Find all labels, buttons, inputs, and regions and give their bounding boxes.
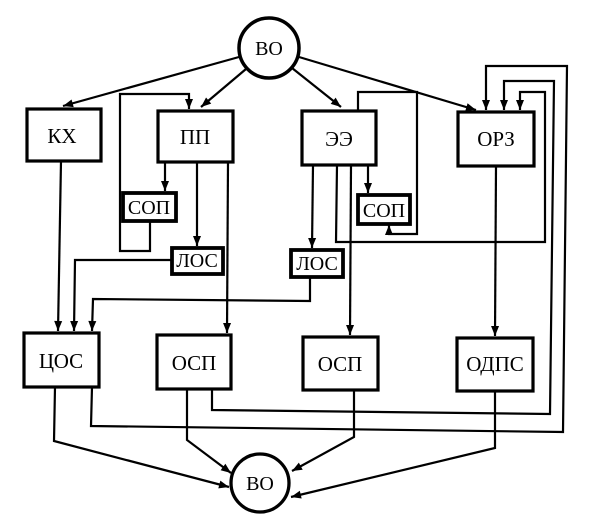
svg-text:ЛОС: ЛОС: [296, 253, 338, 275]
block LOS left: [172, 248, 223, 274]
block ORZ: [458, 112, 534, 166]
wire VO to EE: [292, 68, 341, 107]
wire VO to PP: [201, 69, 246, 107]
svg-text:ОСП: ОСП: [318, 352, 363, 376]
svg-text:СОП: СОП: [128, 197, 170, 219]
wire EE top loop to SOP right: [358, 92, 417, 234]
wire OSP left to VO bottom: [187, 389, 231, 473]
svg-text:СОП: СОП: [363, 200, 405, 222]
block KX: [27, 109, 101, 161]
block SOP right: [358, 195, 410, 224]
wire LOS left to TsOS: [74, 260, 172, 331]
wire OSP right to VO bottom: [292, 390, 354, 471]
block PP: [158, 111, 233, 162]
svg-text:ЭЭ: ЭЭ: [325, 127, 353, 151]
svg-text:ПП: ПП: [180, 125, 210, 149]
wire PP to LOS left: [196, 162, 198, 246]
block OSP right: [303, 337, 378, 390]
wire VO to KX: [63, 57, 239, 106]
block ODPS: [457, 338, 533, 391]
wire ODPS to VO bottom: [291, 391, 495, 497]
wire TsOS loop to ORZ: [91, 66, 567, 432]
block TsOS: [24, 333, 99, 387]
wire EE to SOP right: [367, 165, 369, 193]
svg-text:ОДПС: ОДПС: [466, 352, 524, 376]
wire EE loop to ORZ: [336, 92, 545, 242]
wire VO to ORZ: [299, 57, 476, 110]
wire SOP left loop to PP: [120, 94, 189, 251]
node VO top circle: [239, 18, 299, 78]
wire TsOS to VO bottom: [54, 387, 229, 487]
wire KX to TsOS: [58, 161, 61, 331]
svg-text:ОРЗ: ОРЗ: [477, 127, 515, 151]
block EE: [302, 111, 376, 165]
svg-text:ЦОС: ЦОС: [39, 349, 83, 373]
wire OSP left loop to ORZ: [212, 81, 554, 414]
block SOP left: [123, 193, 176, 221]
wire ORZ to ODPS: [495, 166, 496, 336]
wire LOS right to TsOS: [92, 277, 310, 331]
block LOS right: [291, 250, 343, 277]
wire EE to LOS right: [312, 165, 313, 248]
svg-text:ЛОС: ЛОС: [176, 250, 218, 272]
svg-text:ВО: ВО: [246, 473, 274, 495]
svg-text:ВО: ВО: [255, 38, 283, 60]
svg-text:КХ: КХ: [47, 124, 76, 148]
wire PP to SOP left: [164, 162, 166, 191]
node VO bottom circle: [231, 454, 289, 512]
wire PP to OSP left: [227, 162, 228, 333]
wire EE to OSP right: [350, 165, 351, 335]
block OSP left: [157, 335, 231, 389]
svg-text:ОСП: ОСП: [172, 351, 217, 375]
